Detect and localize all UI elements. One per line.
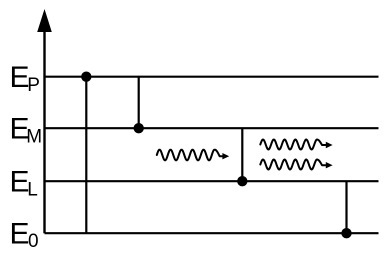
transition line E_P to E_M	[138, 77, 140, 129]
energy level E_P line	[45, 76, 379, 78]
electron dot on E_L	[237, 176, 247, 186]
svg-text:0: 0	[28, 231, 39, 252]
photon wavy arrow 2 (upper right)	[260, 140, 332, 150]
electron dot on E_M	[134, 123, 144, 133]
svg-text:E: E	[10, 217, 30, 250]
svg-text:L: L	[27, 179, 38, 200]
svg-text:M: M	[26, 126, 42, 147]
photon wavy arrow 1 (emitted M to L)	[157, 150, 229, 161]
label E_L	[10, 165, 38, 200]
y-axis (energy axis)	[37, 9, 52, 233]
label E_M	[10, 112, 43, 147]
transition line E_M to E_L	[241, 128, 243, 181]
electron dot on E_0	[341, 228, 351, 238]
electron dot on E_P	[81, 72, 91, 82]
transition line E_L to E_0	[345, 181, 347, 233]
photon wavy arrow 3 (lower right)	[260, 160, 332, 170]
label E_0	[10, 217, 39, 252]
energy level E_M line	[45, 127, 379, 129]
energy level E_0 line (ground)	[45, 232, 379, 234]
transition line E_P to E_0	[85, 77, 87, 234]
energy level E_L line	[45, 180, 379, 182]
label E_P	[10, 61, 40, 96]
svg-text:P: P	[27, 75, 40, 96]
